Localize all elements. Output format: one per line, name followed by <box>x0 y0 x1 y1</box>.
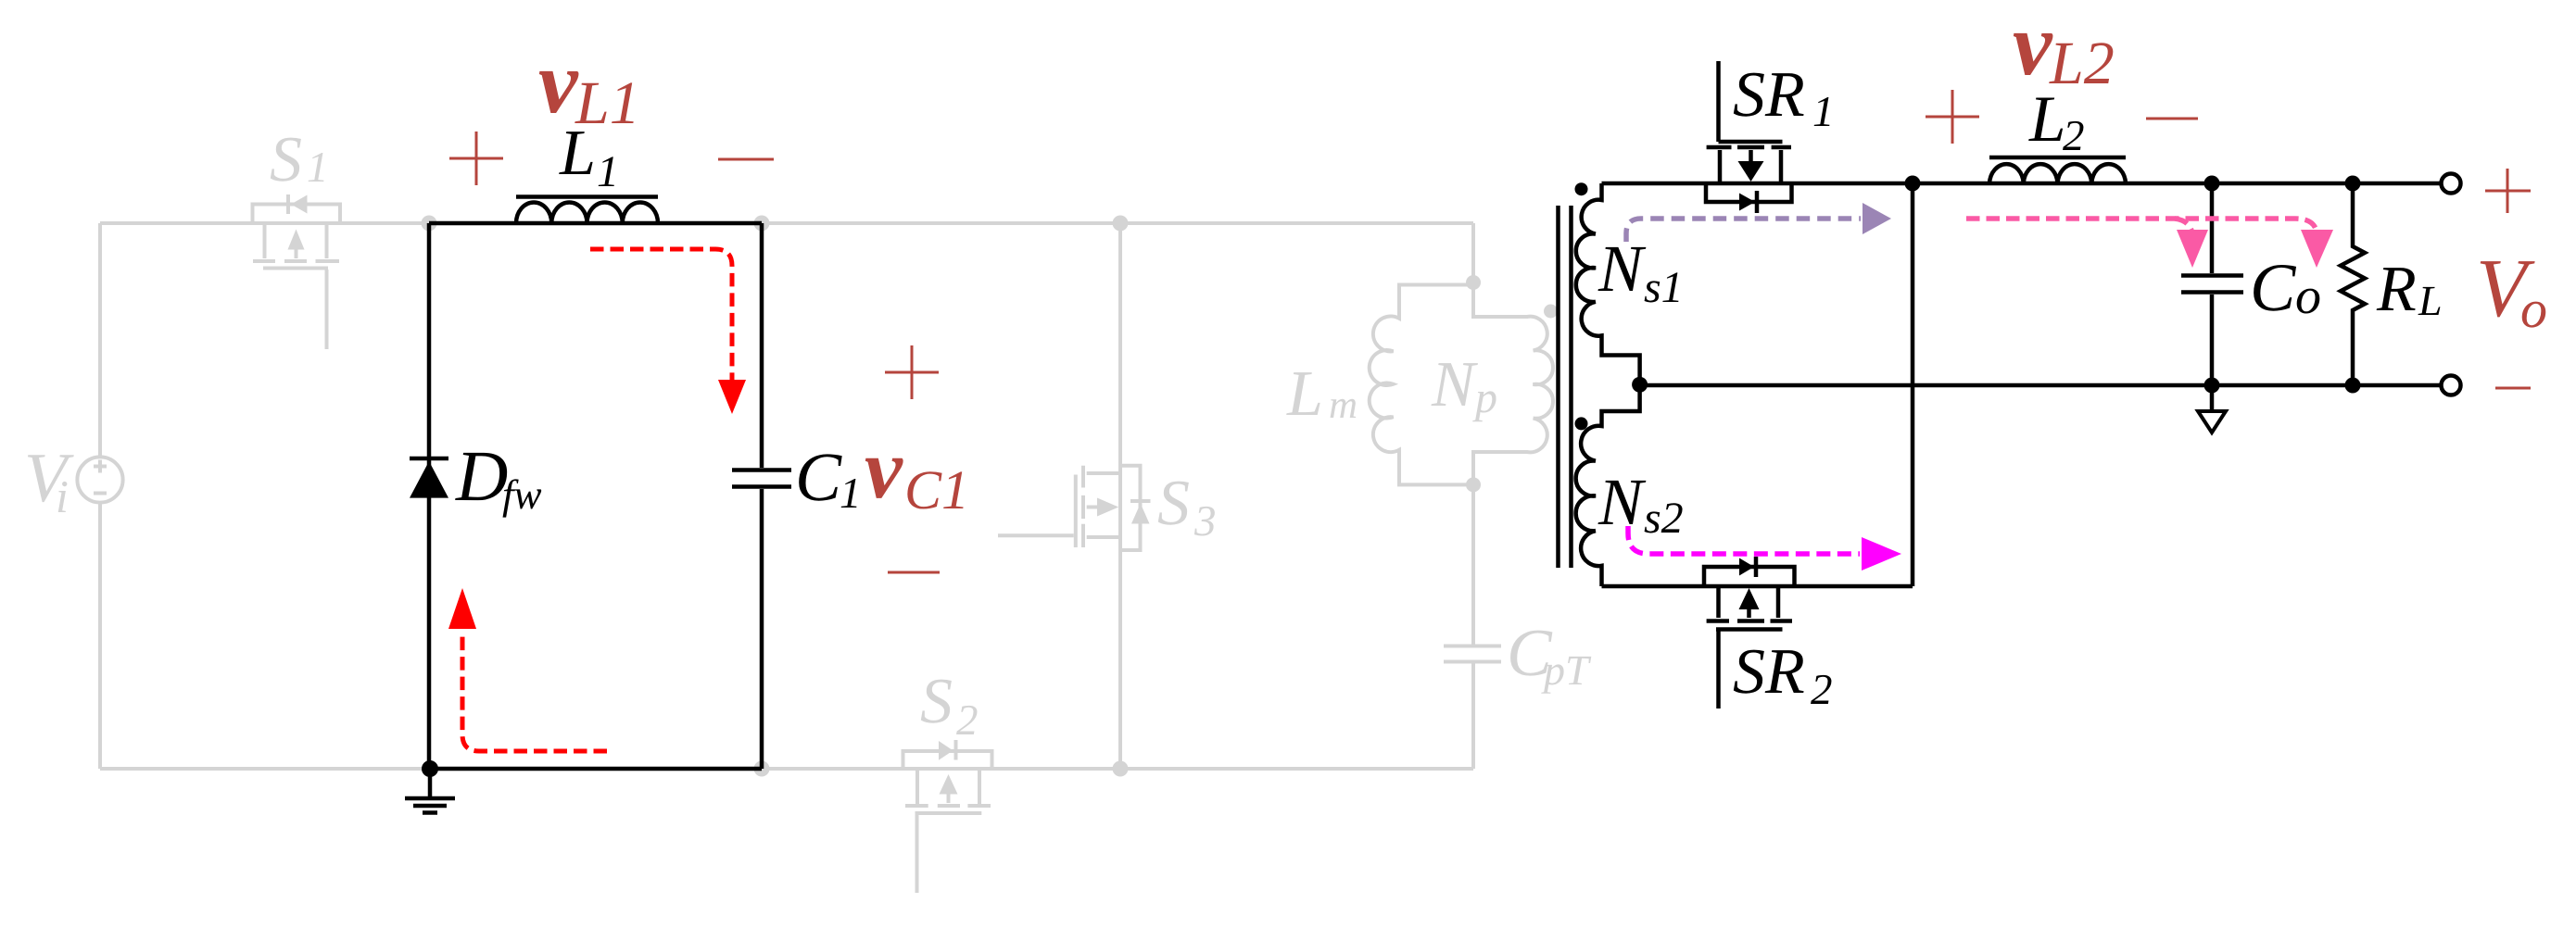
svg-text:1: 1 <box>1812 88 1835 136</box>
svg-text:SR: SR <box>1733 636 1805 708</box>
svg-text:L1: L1 <box>575 69 640 137</box>
source Vi <box>77 457 122 502</box>
current path pink branch Co <box>2175 219 2208 268</box>
label S1 <box>270 124 329 195</box>
svg-text:D: D <box>455 435 508 516</box>
inductor Lm <box>1370 285 1473 485</box>
svg-text:L: L <box>1286 358 1323 430</box>
transistor SR1 <box>1706 61 1792 213</box>
wire vertical SR branch <box>1911 183 1915 586</box>
node dot Lm top <box>1466 275 1481 290</box>
svg-text:C1: C1 <box>904 459 969 520</box>
polarity - L2 <box>2146 118 2198 120</box>
svg-text:2: 2 <box>956 696 979 745</box>
transistor SR2 <box>1704 557 1795 709</box>
transistor S3 <box>998 223 1151 769</box>
wire left rail lower <box>98 503 102 769</box>
winding Np <box>1473 282 1553 484</box>
winding Ns2 <box>1576 384 1640 586</box>
svg-text:N: N <box>1597 232 1647 306</box>
svg-text:pT: pT <box>1541 646 1592 694</box>
svg-text:i: i <box>56 470 69 522</box>
svg-text:v: v <box>865 421 903 516</box>
svg-text:C: C <box>795 439 842 516</box>
node dot RL bottom <box>2345 378 2361 394</box>
terminal - output <box>2442 376 2461 395</box>
inductor L2 <box>1989 157 2126 183</box>
label RL <box>2376 254 2443 325</box>
label SR2 <box>1733 636 1833 714</box>
node dot Co bottom <box>2204 378 2220 394</box>
label Co <box>2250 250 2321 326</box>
current path pink L2 <box>1966 219 2333 268</box>
label Vi <box>24 439 74 522</box>
label Dfw <box>455 435 542 518</box>
label vL2 <box>2013 0 2115 97</box>
svg-text:L: L <box>2418 277 2443 324</box>
label CpT <box>1507 615 1592 694</box>
polarity - Vo <box>2495 387 2531 390</box>
label L1 <box>559 118 619 196</box>
svg-text:v: v <box>2013 0 2053 94</box>
label C1 <box>795 439 862 518</box>
node dot top S3 <box>1113 216 1129 232</box>
svg-text:p: p <box>1472 373 1497 422</box>
wire center tap rail <box>1640 383 2442 388</box>
node dot bottom S3 <box>1113 761 1129 777</box>
svg-text:N: N <box>1597 465 1647 539</box>
wire left branch with Dfw <box>427 223 432 769</box>
label Ns2 <box>1597 465 1684 543</box>
label L2 <box>2028 83 2085 160</box>
polarity - L1 <box>718 158 774 161</box>
svg-text:o: o <box>2295 268 2321 325</box>
node dot Lm bottom <box>1466 477 1481 492</box>
wire top output rail <box>1602 182 2443 186</box>
polarity + Vo <box>2485 169 2531 213</box>
node dot SR branch <box>1905 176 1921 192</box>
svg-text:1: 1 <box>307 144 329 192</box>
transformer core <box>1559 206 1572 568</box>
transistor S1 <box>253 194 341 349</box>
wire drop to primary node <box>1471 223 1475 282</box>
svg-text:s1: s1 <box>1644 263 1684 312</box>
polarity + L2 <box>1926 90 1979 144</box>
svg-text:v: v <box>538 32 579 132</box>
svg-text:1: 1 <box>840 470 862 518</box>
node dot bottom-left <box>422 760 438 777</box>
label S3 <box>1157 468 1217 546</box>
wire L1 top segment <box>429 221 762 226</box>
inductor L1 <box>516 197 658 224</box>
svg-text:s2: s2 <box>1644 494 1684 543</box>
current path red lower <box>448 588 607 751</box>
svg-text:L2: L2 <box>2049 30 2115 97</box>
terminal + output <box>2442 174 2461 194</box>
label Ns1 <box>1597 232 1684 312</box>
transistor S2 <box>903 740 992 893</box>
node dot top-mid <box>754 216 770 232</box>
wire SR2 bottom <box>1602 584 1913 589</box>
capacitor Co <box>2181 183 2243 385</box>
svg-text:C: C <box>2250 250 2297 326</box>
svg-text:fw: fw <box>502 471 542 518</box>
svg-text:SR: SR <box>1733 59 1805 131</box>
label Lm <box>1286 358 1357 430</box>
wire bottom black segment <box>430 767 762 771</box>
svg-text:2: 2 <box>1811 666 1833 714</box>
wire left rail upper <box>98 223 102 457</box>
svg-text:S: S <box>920 666 953 737</box>
ground under Co <box>2198 385 2226 433</box>
resistor RL <box>2341 183 2365 385</box>
capacitor C1 <box>732 223 791 769</box>
label Np <box>1431 349 1497 422</box>
svg-text:N: N <box>1431 349 1478 420</box>
svg-text:S: S <box>1157 468 1190 539</box>
polarity + L1 <box>449 132 503 185</box>
svg-text:R: R <box>2376 254 2417 325</box>
node dot L2 out top <box>2204 176 2220 192</box>
node dot top-left <box>422 216 437 232</box>
polarity + C1 <box>885 345 939 399</box>
junction dot center tap <box>1632 377 1648 393</box>
label Vo <box>2476 243 2547 339</box>
node dot RL top <box>2345 176 2361 192</box>
svg-text:o: o <box>2520 279 2547 339</box>
capacitor CpT <box>1444 484 1501 769</box>
ground under Dfw <box>405 769 455 813</box>
svg-text:3: 3 <box>1193 497 1217 546</box>
svg-text:S: S <box>270 124 302 195</box>
svg-text:2: 2 <box>2063 112 2085 160</box>
current path magenta SR2 <box>1628 526 1901 571</box>
polarity dot Ns1 <box>1575 182 1588 195</box>
svg-text:1: 1 <box>597 147 619 196</box>
wire top rail <box>100 221 1473 225</box>
polarity dot Ns2 <box>1575 417 1588 430</box>
winding Ns1 <box>1576 183 1640 384</box>
current path red upper <box>590 249 746 414</box>
node dot bottom-mid <box>754 761 770 777</box>
polarity dot Np <box>1544 305 1558 319</box>
current path purple SR1 <box>1626 203 1891 242</box>
label SR1 <box>1733 59 1835 136</box>
wire bottom rail <box>100 767 1473 771</box>
svg-text:m: m <box>1329 383 1357 427</box>
label vC1 <box>865 421 969 520</box>
polarity - C1 <box>888 571 940 574</box>
diode Dfw <box>410 458 448 498</box>
label vL1 <box>538 32 640 137</box>
label S2 <box>920 666 979 745</box>
